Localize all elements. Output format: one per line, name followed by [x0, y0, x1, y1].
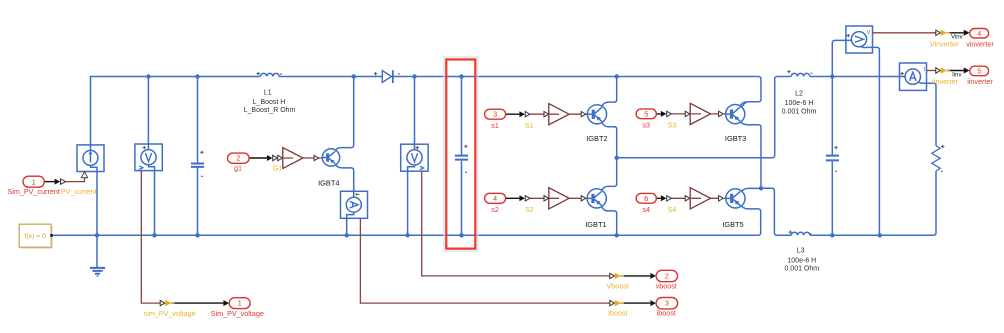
svg-text:0.001 Ohm: 0.001 Ohm	[784, 266, 819, 273]
svg-text:L2: L2	[795, 91, 803, 98]
svg-text:Vboost: Vboost	[607, 281, 629, 290]
svg-text:100e-6 H: 100e-6 H	[787, 258, 816, 265]
svg-text:Sim_PV_voltage: Sim_PV_voltage	[211, 309, 264, 318]
svg-text:s4: s4	[642, 205, 650, 214]
svg-text:3: 3	[493, 110, 497, 119]
svg-text:1: 1	[238, 299, 242, 308]
svg-text:S4: S4	[668, 205, 677, 214]
svg-text:s1: s1	[491, 121, 499, 130]
svg-text:L_Boost_R Ohm: L_Boost_R Ohm	[244, 107, 296, 114]
svg-text:L3: L3	[797, 248, 805, 255]
svg-text:100e-6 H: 100e-6 H	[785, 100, 814, 107]
svg-text:Vinv: Vinv	[951, 35, 963, 41]
svg-text:IGBT3: IGBT3	[725, 134, 746, 143]
svg-text:0.001 Ohm: 0.001 Ohm	[782, 109, 817, 116]
svg-text:L1: L1	[264, 89, 272, 96]
svg-text:IGBT4: IGBT4	[318, 178, 339, 187]
svg-text:S1: S1	[525, 121, 534, 130]
svg-text:S3: S3	[668, 120, 677, 129]
svg-text:IGBT5: IGBT5	[722, 220, 743, 229]
svg-text:1: 1	[32, 177, 36, 186]
svg-text:iinverter: iinverter	[967, 77, 993, 86]
svg-text:s3: s3	[642, 120, 650, 129]
svg-text:PV_current: PV_current	[61, 187, 97, 196]
svg-text:5: 5	[644, 109, 648, 118]
svg-text:2: 2	[665, 272, 669, 281]
svg-text:iboost: iboost	[657, 308, 676, 317]
svg-text:g1: g1	[234, 163, 242, 172]
svg-text:4: 4	[493, 194, 497, 203]
svg-text:vboost: vboost	[656, 281, 677, 290]
svg-text:6: 6	[644, 194, 648, 203]
svg-text:s2: s2	[491, 205, 499, 214]
svg-text:sim_PV_voltage: sim_PV_voltage	[144, 309, 196, 318]
svg-text:5: 5	[977, 67, 981, 76]
svg-text:f(x) = 0: f(x) = 0	[25, 233, 47, 240]
svg-text:S2: S2	[525, 205, 534, 214]
svg-text:Vinverter: Vinverter	[930, 39, 959, 48]
svg-text:G1: G1	[273, 164, 283, 173]
svg-text:4: 4	[977, 29, 981, 38]
svg-text:IGBT2: IGBT2	[586, 134, 607, 143]
svg-text:vinverter: vinverter	[966, 39, 994, 48]
svg-text:Iinv: Iinv	[952, 72, 961, 78]
svg-text:V: V	[867, 30, 871, 36]
svg-text:2: 2	[236, 154, 240, 163]
svg-text:Sim_PV_current: Sim_PV_current	[8, 187, 60, 196]
svg-text:Iboost: Iboost	[608, 308, 628, 317]
svg-text:L_Boost H: L_Boost H	[253, 99, 286, 106]
svg-text:3: 3	[665, 299, 669, 308]
svg-text:IGBT1: IGBT1	[585, 220, 606, 229]
